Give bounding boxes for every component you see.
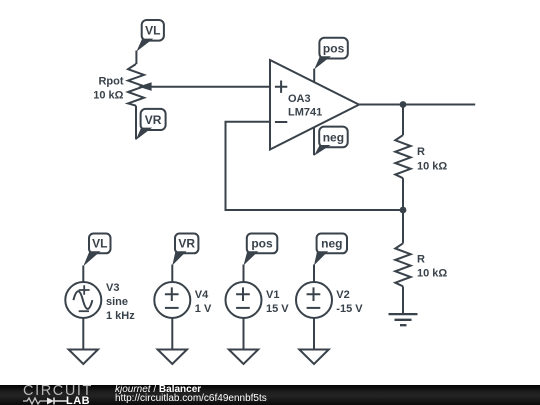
net flag pos (bottom, at source V1) [244, 234, 278, 266]
svg-text:1 V: 1 V [195, 303, 212, 315]
ground (triangle) at V1 [229, 350, 258, 365]
wire neg flag to V2 + terminal [313, 265, 315, 283]
ground (earth, 3-bar) [389, 314, 418, 325]
ground (triangle) at V3 [69, 350, 98, 365]
resistor R2 [395, 243, 410, 286]
svg-text:R: R [417, 146, 425, 158]
svg-text:10 kΩ: 10 kΩ [93, 89, 123, 101]
wire VL flag tail to Rpot top terminal [135, 51, 137, 65]
schematic URL [115, 394, 267, 403]
svg-text:sine: sine [106, 296, 128, 308]
svg-text:neg: neg [321, 237, 342, 251]
wire pos flag to V1 + terminal [243, 265, 245, 283]
feedback wire middle node to op-amp inverting input [226, 122, 404, 210]
svg-text:V1: V1 [266, 289, 279, 301]
svg-text:VR: VR [145, 113, 162, 127]
net flag pos (+15 V net, top) [314, 38, 348, 70]
resistor R1 [395, 135, 410, 178]
value label R2 10 kOhm [417, 254, 447, 280]
net flag VR (bottom, at source V4) [172, 234, 198, 266]
wire op-amp V+ power pin to pos flag [313, 69, 315, 83]
wire Rpot bottom terminal to VR flag [135, 106, 137, 140]
svg-text:VL: VL [92, 237, 107, 251]
wire V4 - terminal to ground [171, 318, 173, 350]
footer CircuitLab banner [0, 385, 540, 405]
value label V1 15 V [266, 289, 289, 315]
voltage source V1 (DC 15 V) [226, 282, 262, 318]
wire V3 - terminal to ground [82, 318, 84, 350]
svg-text:V4: V4 [195, 289, 209, 301]
wire output node down to R1 top [402, 105, 404, 136]
svg-text:pos: pos [323, 42, 345, 56]
ground (triangle) at V4 [158, 350, 187, 365]
junction at output node [400, 101, 407, 108]
svg-text:VR: VR [178, 237, 195, 251]
wire V2 - terminal to ground [313, 318, 315, 350]
wire Rpot wiper to op-amp non-inverting input [151, 86, 270, 88]
svg-text:pos: pos [251, 237, 273, 251]
wire middle node down to R2 top [402, 210, 404, 243]
wire R1 bottom to middle node [402, 178, 404, 210]
voltage source V4 (DC 1 V) [154, 282, 190, 318]
value label Rpot 10 kOhm [93, 75, 124, 101]
net flag VL (bottom, at source V3) [83, 234, 110, 267]
CircuitLab logo resistor-diode glyph [23, 396, 67, 405]
net flag VR (right input net, top) [136, 109, 166, 140]
wire VR flag to V4 + terminal [171, 265, 173, 283]
op-amp OA3 (triangle with + and - inputs) [270, 60, 359, 150]
voltage source V3 (sine) [65, 282, 101, 318]
svg-text:-15 V: -15 V [336, 303, 363, 315]
svg-text:OA3: OA3 [288, 93, 311, 105]
svg-text:neg: neg [323, 130, 344, 144]
wire R2 bottom to earth ground [402, 286, 404, 313]
junction at middle node [400, 207, 407, 214]
CircuitLab logo wordmark [23, 387, 93, 396]
svg-text:Rpot: Rpot [98, 75, 123, 87]
net flag neg (bottom, at source V2) [314, 234, 347, 266]
svg-text:15 V: 15 V [266, 303, 289, 315]
voltage source V2 (DC -15 V) [296, 282, 332, 318]
svg-text:VL: VL [145, 24, 160, 38]
svg-text:LM741: LM741 [288, 107, 322, 119]
potentiometer Rpot (zigzag body + wiper arrow) [128, 64, 152, 106]
value label V3 sine 1 kHz [106, 282, 135, 322]
label OA3 LM741 [288, 93, 322, 118]
svg-text:10 kΩ: 10 kΩ [417, 161, 447, 173]
net flag VL (left input net, top) [136, 20, 164, 52]
attribution text kjournet / Balancer [115, 385, 201, 394]
value label V4 1 V [195, 289, 212, 315]
value label V2 -15 V [336, 289, 363, 315]
svg-text:10 kΩ: 10 kΩ [417, 267, 447, 279]
svg-text:R: R [417, 254, 425, 266]
net flag neg (-15 V net, top) [314, 127, 348, 156]
value label R1 10 kOhm [417, 146, 447, 172]
svg-text:V3: V3 [106, 282, 119, 294]
svg-text:V2: V2 [336, 289, 349, 301]
wire V1 - terminal to ground [243, 318, 245, 350]
svg-text:1 kHz: 1 kHz [106, 310, 135, 322]
wire op-amp output to the right [359, 104, 475, 106]
wire op-amp V- power pin to neg flag [313, 128, 315, 156]
wire VL flag to V3 + terminal [82, 266, 84, 283]
ground (triangle) at V2 [299, 350, 328, 365]
